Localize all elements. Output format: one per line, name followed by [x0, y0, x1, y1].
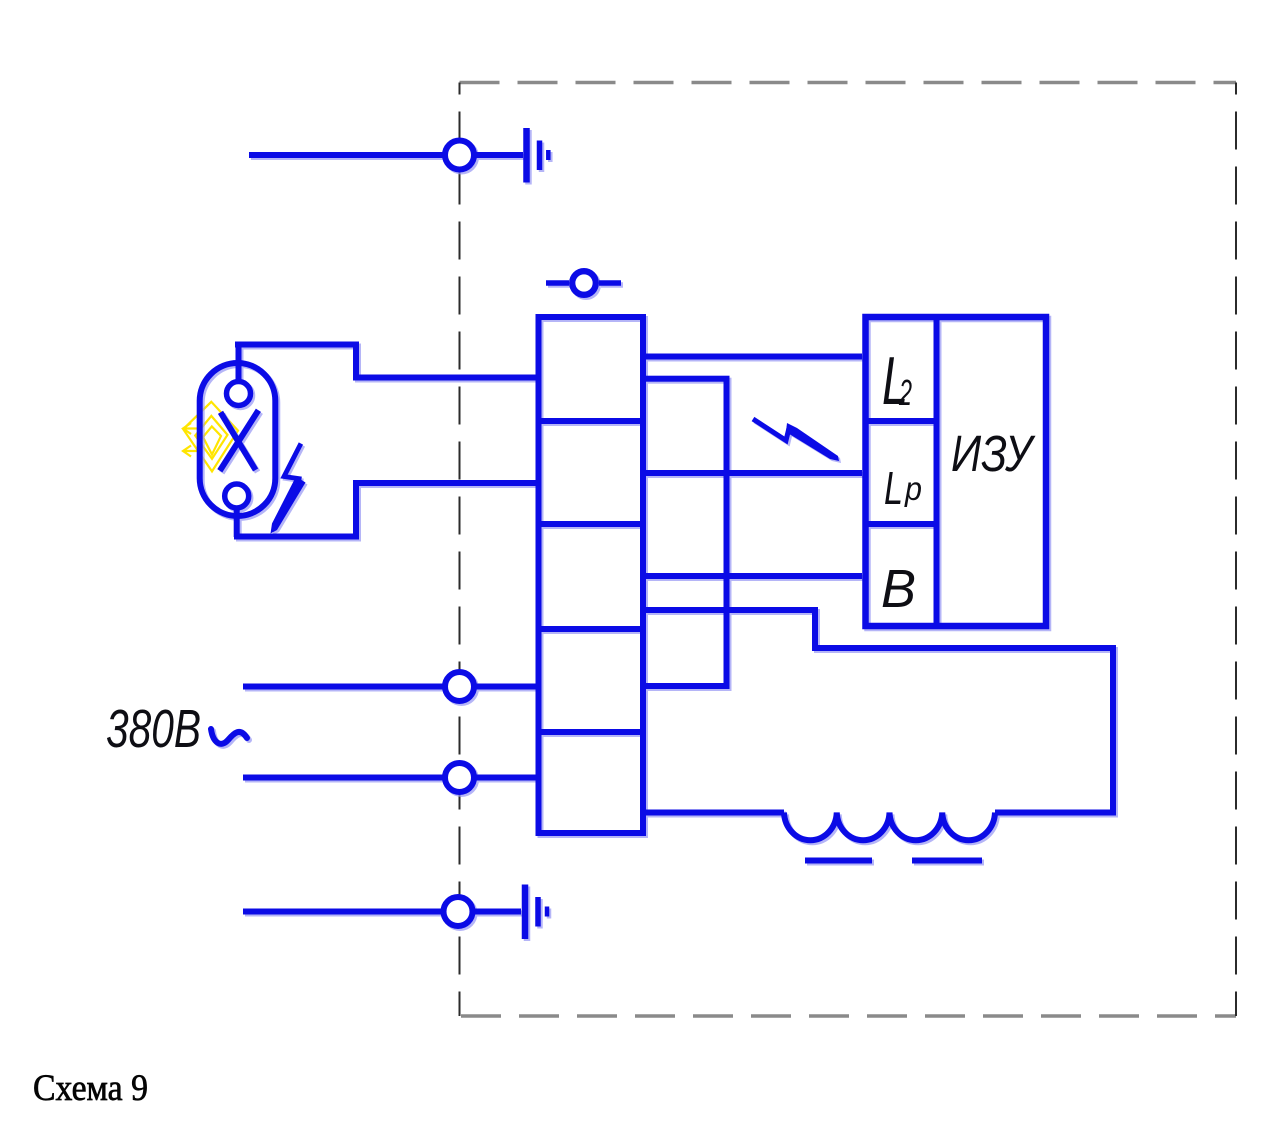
inductor core line right	[912, 858, 982, 864]
svg-text:ИЗУ: ИЗУ	[951, 425, 1036, 482]
ignitor box U1 outline	[866, 317, 1047, 626]
svg-text:Схема 9: Схема 9	[33, 1068, 148, 1109]
lamp electrode top	[227, 382, 251, 406]
terminal strip X2 body	[643, 379, 727, 686]
wire phase 2 to block	[474, 775, 541, 781]
arrow ignition pulse to ignitor	[753, 419, 839, 461]
node terminal circle top	[445, 141, 474, 170]
wire ballast loop	[643, 610, 1113, 813]
wire bottom ground	[243, 909, 444, 915]
wire B	[643, 573, 862, 579]
wire top input	[249, 152, 445, 158]
ignitor terminal divider L2/Lp	[866, 418, 937, 424]
AC squiggle 380V	[211, 729, 247, 744]
wire phase 1 to block	[474, 684, 541, 690]
wire Lp	[643, 470, 862, 476]
lamp EL1 bulb outline	[200, 363, 276, 516]
wire node to bottom ground	[473, 909, 522, 915]
terminal block X1 divider 4	[539, 729, 644, 735]
node circle phase 1	[445, 672, 474, 701]
wire 380V phase 1	[243, 684, 445, 690]
lamp bottom lead stub	[234, 508, 240, 537]
terminal block X1 divider 3	[539, 626, 644, 632]
lamp top lead stub	[236, 345, 242, 383]
svg-text:p: p	[904, 470, 922, 507]
inductor core line left	[805, 858, 872, 864]
label L2	[882, 343, 912, 419]
lamp electrode bottom	[225, 484, 249, 508]
svg-text:2: 2	[898, 372, 912, 413]
ground symbol top	[527, 128, 549, 183]
wire node to ground	[474, 152, 523, 158]
terminal block X1 body	[539, 317, 644, 833]
fuse circle leads	[546, 280, 621, 286]
ignitor terminal divider Lp/B	[866, 521, 937, 527]
lamp light flash yellow	[183, 402, 238, 472]
terminal block X1 divider 1	[539, 418, 644, 424]
enclosure dashed border left	[459, 83, 461, 1017]
arrow ignition pulse to lamp	[271, 444, 306, 534]
wire L2	[643, 354, 862, 360]
inductor L1 choke winding	[784, 813, 995, 841]
enclosure dashed border right	[1235, 83, 1237, 1017]
wire 380V phase 2	[243, 775, 445, 781]
enclosure dashed border top	[460, 81, 1237, 84]
wire lamp bottom to block	[234, 483, 541, 537]
svg-text:В: В	[881, 559, 916, 619]
ground symbol bottom	[525, 885, 547, 940]
label Lp	[884, 462, 922, 514]
wire lamp top to block	[235, 345, 541, 378]
ignitor box divider vertical	[934, 317, 940, 626]
lamp cross mark	[220, 410, 259, 471]
enclosure dashed border bottom	[461, 1014, 1236, 1017]
node circle bottom ground	[444, 897, 473, 926]
wire choke left	[643, 810, 784, 816]
fuse circle	[572, 271, 596, 295]
svg-text:380В: 380В	[106, 699, 201, 759]
node circle phase 2	[445, 763, 474, 792]
svg-text:L: L	[884, 462, 903, 514]
terminal block X1 divider 2	[539, 521, 644, 527]
